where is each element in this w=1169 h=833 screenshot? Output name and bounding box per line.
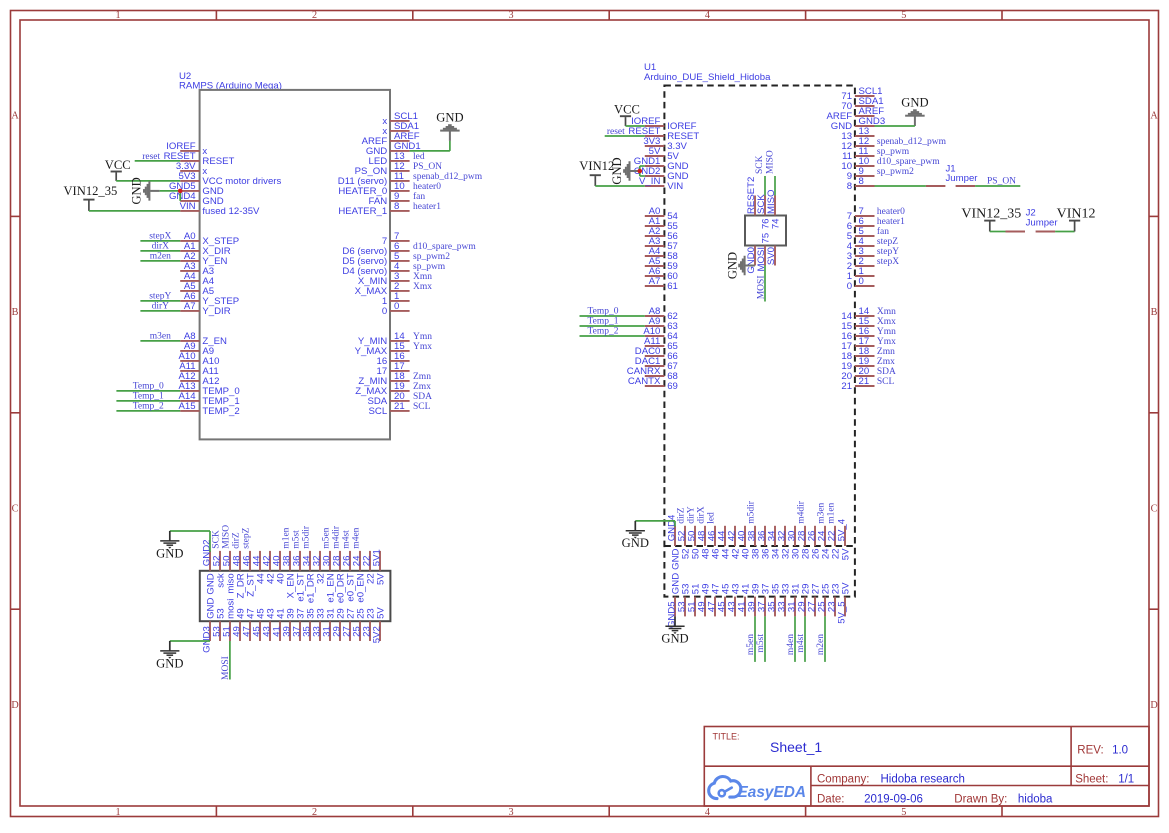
U2 pin AREF (AREF) [362, 131, 420, 147]
svg-text:Xmn: Xmn [877, 307, 896, 317]
U1 pin SDA1 (70) [841, 96, 883, 112]
U1 pin A3 (57) [645, 236, 678, 252]
svg-text:GND: GND [156, 656, 183, 670]
wire J1 to net PS_ON [975, 185, 1020, 187]
U2 pin RESET (RESET) [164, 151, 235, 167]
svg-text:74: 74 [770, 218, 781, 229]
svg-text:hidoba: hidoba [1018, 794, 1053, 806]
ground GND at SPI GND0 [726, 252, 755, 279]
header P1 column 30/31 [321, 551, 336, 641]
U2 pin SDA1 (x) [382, 121, 419, 137]
U2 pin 19 (Z_MAX) [355, 381, 409, 397]
svg-text:MOSI: MOSI [221, 656, 231, 680]
svg-text:Company:: Company: [817, 773, 869, 785]
header P2 column GND4/GND5 [666, 514, 681, 628]
frame row ticks [11, 215, 21, 217]
U1 pin CANTX (69) [628, 376, 678, 392]
U2 pin A11 (A11) [179, 361, 219, 377]
header P1 column 46/47 [241, 551, 256, 641]
svg-text:GND: GND [156, 546, 183, 560]
svg-text:dirZ: dirZ [677, 507, 687, 524]
svg-text:m5dir: m5dir [747, 500, 757, 524]
svg-text:fan: fan [413, 191, 425, 202]
U1 pin 20 (20) [841, 366, 874, 382]
svg-text:8: 8 [859, 176, 864, 187]
svg-text:dirZ: dirZ [232, 532, 242, 549]
component U1 dashed outline [664, 86, 855, 597]
svg-text:Temp_0: Temp_0 [588, 307, 619, 317]
ground GND (left of U1) [610, 157, 640, 184]
header P2 column 22/23 [826, 526, 841, 617]
svg-text:A15: A15 [179, 401, 196, 412]
svg-text:5: 5 [901, 10, 906, 21]
header P1 column 38/39 [281, 551, 296, 641]
header P2 column 46/47 [706, 526, 721, 617]
svg-text:C: C [12, 503, 19, 514]
svg-text:VCC: VCC [614, 103, 640, 117]
U1 pin GND1 (GND) [634, 156, 689, 172]
U1 pin A6 (60) [645, 266, 678, 282]
U1 pin 16 (16) [841, 326, 874, 342]
svg-text:m5en: m5en [746, 634, 756, 655]
svg-text:fan: fan [877, 226, 889, 237]
svg-text:SV0: SV0 [766, 247, 777, 265]
U2 pin 17 (17) [377, 361, 410, 377]
EasyEDA logo [709, 777, 806, 802]
svg-text:Temp_2: Temp_2 [133, 402, 164, 412]
U2 pin 5 (D5 (servo)) [342, 251, 409, 267]
svg-text:5V_4: 5V_4 [837, 518, 848, 541]
U2 pin IOREF (x) [166, 141, 207, 157]
U1 pin AREF (AREF) [827, 106, 885, 122]
svg-text:VIN12: VIN12 [1057, 206, 1096, 221]
U1 pin 11 (11) [842, 146, 874, 162]
U2 pin GND1 (GND) [366, 141, 421, 157]
wire U2 pin GND1 to GND [410, 141, 450, 151]
header P1 column 50/51 [221, 551, 236, 641]
svg-text:PS_ON: PS_ON [987, 177, 1016, 187]
header P2 column 5V_4/5V_5 [836, 518, 851, 624]
junction at U2 pin GND5 [178, 189, 183, 194]
svg-text:dirY: dirY [152, 302, 170, 312]
U2 pin 16 (16) [377, 351, 410, 367]
title block frame [704, 727, 1149, 807]
U1 pin 3V3 (3.3V) [643, 136, 687, 152]
svg-text:SCK: SCK [212, 530, 222, 549]
wire net m5en from P2 [746, 616, 756, 662]
U1 pin DAC1 (67) [635, 356, 678, 372]
svg-text:Zmn: Zmn [877, 347, 895, 357]
ground GND (bottom of P2) [661, 616, 688, 645]
wire VIN12_35 to U2 pin VIN [89, 210, 180, 212]
U1 pin 8 (8) [847, 176, 875, 192]
svg-text:stepX: stepX [877, 257, 899, 267]
svg-text:Jumper: Jumper [1026, 217, 1059, 228]
svg-text:m3en: m3en [817, 502, 827, 523]
U1 pin A4 (58) [645, 246, 678, 262]
U2 pin 14 (Y_MIN) [358, 331, 410, 347]
svg-text:Temp_0: Temp_0 [133, 382, 164, 392]
power flag VIN12_35 (at J2) [961, 206, 1021, 231]
junction at U1 GND [638, 169, 643, 174]
svg-text:m1en: m1en [827, 502, 837, 523]
svg-text:A: A [11, 111, 19, 122]
header P1 column 28/29 [331, 551, 346, 641]
svg-text:spenab_d12_pwm: spenab_d12_pwm [413, 172, 483, 182]
power flag VCC (left of U1) [614, 103, 640, 127]
wire net Temp_2 to U1 [580, 327, 645, 337]
U2 pin A9 (A9) [180, 341, 214, 357]
svg-text:TITLE:: TITLE: [713, 732, 740, 742]
svg-text:m2en: m2en [150, 252, 171, 262]
svg-text:Ymn: Ymn [877, 327, 896, 337]
U1 pin 15 (15) [841, 316, 874, 332]
U2 pin A13 (TEMP_0) [179, 381, 240, 397]
wire VIN12 to U1 pin V_IN [595, 185, 645, 187]
U1 pin 3 (3) [847, 246, 875, 262]
svg-text:heater1: heater1 [877, 217, 905, 227]
svg-text:5V1: 5V1 [372, 549, 383, 566]
U2 pin 11 (D11 (servo)) [338, 171, 410, 187]
wire net Temp_0 to U2 [116, 382, 180, 392]
U2 pin 12 (PS_ON) [355, 161, 410, 177]
U1 pin CANRX (68) [627, 366, 678, 382]
U1 pin A2 (56) [645, 226, 678, 242]
svg-text:Arduino_DUE_Shield_Hidoba: Arduino_DUE_Shield_Hidoba [644, 72, 771, 83]
svg-text:A7: A7 [184, 301, 196, 312]
header P2 column 38/39 [746, 526, 761, 617]
svg-text:PS_ON: PS_ON [413, 162, 442, 172]
svg-text:MOSI: MOSI [757, 276, 767, 300]
svg-text:1: 1 [115, 10, 120, 21]
U2 pin 8 (HEATER_1) [338, 201, 409, 217]
U1 pin IOREF (IOREF) [631, 116, 697, 132]
wire VIN12_35 to J2 pin 1 [990, 231, 1006, 233]
header P1 column 44/45 [251, 551, 266, 641]
header P1 column 36/37 [291, 551, 306, 641]
svg-text:SCK: SCK [755, 155, 765, 174]
svg-text:Zmx: Zmx [413, 382, 431, 392]
header P2 column 40/41 [736, 526, 751, 617]
component U2 body rectangle [200, 90, 390, 440]
U2 pin A12 (A12) [179, 371, 220, 387]
svg-text:VIN: VIN [667, 181, 683, 192]
U1 pin 5 (5) [847, 226, 875, 242]
svg-text:5V: 5V [840, 548, 851, 560]
header P2 column 52/53 [676, 526, 691, 617]
svg-text:m4st: m4st [796, 634, 806, 653]
power flag VIN12 (left of U1) [579, 159, 614, 186]
svg-text:Xmx: Xmx [413, 282, 432, 292]
wire reset to U1 pin RESET [605, 135, 645, 137]
svg-text:8: 8 [847, 181, 852, 192]
header P1 column GND2/GND3 [201, 540, 216, 653]
U1 pin 1 (1) [847, 266, 875, 282]
U2 pin 18 (Z_MIN) [358, 371, 409, 387]
svg-text:21: 21 [394, 401, 405, 412]
ground GND (net GND3, right of U1) [901, 96, 928, 126]
U1 pin 0 (0) [847, 276, 875, 292]
ground GND (top of P2) [622, 521, 675, 550]
U2 pin 3.3V (x) [176, 161, 208, 177]
svg-text:B: B [1151, 307, 1158, 318]
svg-text:0: 0 [847, 281, 852, 292]
U2 pin A7 (Y_DIR) [180, 301, 231, 317]
J2 pin 2 [1036, 231, 1056, 233]
svg-text:3: 3 [508, 10, 513, 21]
ground GND (right of U2, net GND1) [436, 111, 463, 141]
svg-text:sp_pwm: sp_pwm [877, 147, 910, 157]
wire net m5st from P2 [756, 616, 766, 662]
svg-text:m4en: m4en [352, 527, 362, 548]
svg-text:d10_spare_pwm: d10_spare_pwm [413, 242, 476, 252]
wire SPI SCK up [764, 176, 766, 196]
SPI pin RESET2 (top) [746, 177, 757, 216]
U2 pin A0 (X_STEP) [180, 231, 239, 247]
svg-text:RESET: RESET [202, 156, 234, 167]
svg-text:5V: 5V [840, 582, 851, 594]
U2 pin 21 (SCL) [369, 401, 410, 417]
svg-text:sp_pwm2: sp_pwm2 [413, 252, 450, 262]
U1 pin 12 (12) [841, 136, 874, 152]
svg-text:CANTX: CANTX [628, 376, 661, 387]
wire net dirX to U2 [140, 242, 180, 252]
header P2 column 42/43 [726, 526, 741, 617]
header P2 column 36/37 [756, 526, 771, 617]
svg-text:C: C [1151, 503, 1158, 514]
svg-text:75: 75 [760, 233, 771, 244]
U2 pin GND5 (GND) [169, 181, 224, 197]
wire net m4st from P2 [796, 616, 806, 662]
svg-text:8: 8 [394, 201, 399, 212]
svg-text:1/1: 1/1 [1118, 773, 1134, 785]
U1 pin 14 (14) [841, 306, 874, 322]
U1 bottom header divider (dashed) [664, 545, 855, 547]
U2 pin GND4 (GND) [169, 191, 224, 207]
svg-text:led: led [707, 512, 717, 524]
svg-text:Ymx: Ymx [413, 342, 432, 352]
svg-text:Temp_2: Temp_2 [588, 327, 619, 337]
svg-text:4: 4 [705, 10, 710, 21]
U1 pin A11 (65) [644, 336, 678, 352]
svg-text:heater1: heater1 [413, 202, 441, 212]
U1 pin DAC0 (66) [635, 346, 678, 362]
header P2 column 44/45 [716, 526, 731, 617]
svg-text:TEMP_2: TEMP_2 [202, 406, 239, 417]
wire U1 GND1/GND2 to GND [640, 166, 645, 176]
svg-text:dirX: dirX [697, 506, 707, 524]
U1 pin A5 (59) [645, 256, 678, 272]
svg-text:5: 5 [901, 807, 906, 818]
svg-text:SCL: SCL [413, 402, 431, 412]
title block company row [817, 773, 1134, 785]
svg-text:MISO: MISO [766, 150, 776, 174]
svg-text:61: 61 [667, 281, 678, 292]
wire net Temp_2 to U2 [116, 402, 180, 412]
U1 pin 13 (13) [841, 126, 874, 142]
U2 pin A2 (Y_EN) [180, 251, 227, 267]
svg-text:m3en: m3en [150, 332, 171, 342]
svg-text:2019-09-06: 2019-09-06 [864, 794, 923, 806]
wire net Temp_1 to U2 [116, 392, 180, 402]
svg-text:m4en: m4en [786, 634, 796, 655]
svg-text:5V2: 5V2 [371, 626, 382, 643]
svg-text:5V: 5V [375, 573, 386, 585]
svg-text:VIN12_35: VIN12_35 [961, 206, 1021, 221]
connector J1 labels [946, 164, 979, 184]
svg-text:VIN12_35: VIN12_35 [63, 184, 117, 198]
wire net stepY to U2 [140, 292, 180, 302]
svg-text:1: 1 [115, 807, 120, 818]
svg-text:B: B [12, 307, 19, 318]
wire GND to U2 pin GND5 [160, 190, 181, 192]
svg-text:Sheet:: Sheet: [1075, 773, 1108, 785]
svg-text:dirX: dirX [152, 242, 170, 252]
svg-text:0: 0 [859, 276, 864, 287]
SPI pin GND0 (bottom) [746, 246, 757, 274]
U2 pin 6 (D6 (servo)) [342, 241, 409, 257]
U2 pin 15 (Y_MAX) [355, 341, 410, 357]
wire VCC to U1 pin IOREF [626, 125, 645, 127]
header P1 column 48/49 [231, 551, 246, 641]
wire SPI MOSI down [764, 266, 766, 302]
power flag VCC (left of U2) [105, 158, 131, 181]
svg-text:m1en: m1en [282, 527, 292, 548]
svg-text:A7: A7 [649, 276, 661, 287]
svg-text:Drawn By:: Drawn By: [954, 794, 1007, 806]
svg-text:spenab_d12_pwm: spenab_d12_pwm [877, 137, 947, 147]
J2 pin 1 [1006, 231, 1026, 233]
SPI pin SCK (top) [756, 194, 767, 216]
header P2 column 50/51 [686, 526, 701, 617]
frame column ticks [215, 11, 217, 21]
svg-text:stepY: stepY [877, 247, 899, 257]
svg-text:m2en: m2en [816, 634, 826, 655]
J1 pin 1 [926, 185, 946, 187]
U1 pin 6 (6) [847, 216, 875, 232]
power flag VIN12 (at J2) [1057, 206, 1096, 231]
svg-text:VCC: VCC [105, 158, 131, 172]
svg-text:dirY: dirY [687, 506, 697, 524]
wire net m3en to U2 [140, 332, 180, 342]
svg-text:m5dir: m5dir [302, 525, 312, 549]
U1 pin 10 (10) [841, 156, 874, 172]
wire SPI MISO up [774, 176, 776, 196]
svg-text:D: D [11, 700, 18, 711]
U2 pin A4 (A4) [180, 271, 215, 287]
svg-text:GND: GND [130, 177, 144, 204]
svg-text:m4dir: m4dir [332, 525, 342, 549]
svg-text:Temp_1: Temp_1 [133, 392, 164, 402]
svg-text:2: 2 [312, 10, 317, 21]
U2 pin 10 (HEATER_0) [338, 181, 409, 197]
wire net dirY to U2 [140, 302, 180, 312]
svg-text:HEATER_1: HEATER_1 [338, 206, 387, 217]
wire net m2en to U2 [140, 252, 180, 262]
header P1 column 22/23 [361, 551, 376, 641]
svg-text:fused 12-35V: fused 12-35V [202, 206, 260, 217]
wire net stepX to U2 [140, 232, 180, 242]
wire U1 pin 8 to J1 [875, 185, 926, 187]
SPI header block body [745, 216, 786, 246]
U2 pin 1 (1) [382, 291, 410, 307]
header P2 column 26/27 [806, 526, 821, 617]
header P1 column 52/53 [211, 551, 226, 641]
title block TITLE row [713, 732, 1129, 757]
ground GND (left of U2) [130, 177, 160, 204]
wire VCC to U2 pin 5V3 [116, 180, 180, 182]
wire J2 pin 2 to VIN12 [1055, 231, 1075, 233]
U1 pin 21 (21) [841, 376, 874, 392]
svg-text:0: 0 [382, 306, 387, 317]
svg-text:Zmx: Zmx [877, 357, 895, 367]
svg-text:EasyEDA: EasyEDA [738, 784, 806, 801]
U2 pin 9 (FAN) [369, 191, 410, 207]
header P2 column 30/31 [786, 526, 801, 617]
wire net Temp_0 to U1 [580, 307, 645, 317]
svg-text:Date:: Date: [817, 794, 845, 806]
wire U1 pin GND3 to GND [875, 125, 915, 127]
U2 pin A6 (Y_STEP) [180, 291, 239, 307]
header P2 column 32/33 [776, 526, 791, 617]
wire net Temp_1 to U1 [580, 317, 645, 327]
svg-text:heater0: heater0 [413, 182, 441, 192]
SPI pin MISO (top) [766, 189, 777, 215]
U2 pin A3 (A3) [180, 261, 214, 277]
title block date row [817, 794, 1053, 806]
svg-text:VIN12: VIN12 [579, 159, 614, 173]
header P1 column 40/41 [271, 551, 286, 641]
U2 pin A14 (TEMP_1) [179, 391, 240, 407]
U2 pin 13 (LED) [369, 151, 410, 167]
U1 pin A10 (64) [643, 326, 678, 342]
SPI pin MOSI (bottom) [756, 246, 767, 272]
svg-text:Sheet_1: Sheet_1 [770, 739, 822, 755]
J1 pin 2 [956, 185, 976, 187]
svg-text:sp_pwm2: sp_pwm2 [877, 167, 914, 177]
svg-text:4: 4 [705, 807, 710, 818]
svg-text:stepX: stepX [149, 232, 171, 242]
svg-text:m5st: m5st [756, 634, 766, 653]
svg-text:SDA: SDA [413, 392, 432, 402]
U1 pin GND3 (GND) [831, 116, 885, 132]
svg-text:D: D [1150, 700, 1157, 711]
U2 pin 4 (D4 (servo)) [342, 261, 409, 277]
bottom-left header block body [200, 571, 391, 621]
svg-text:21: 21 [859, 376, 870, 387]
svg-text:Jumper: Jumper [946, 173, 979, 184]
U2 pin A15 (TEMP_2) [179, 401, 240, 417]
SPI pin SV0 (bottom) [766, 246, 777, 266]
svg-text:69: 69 [667, 381, 678, 392]
svg-text:m4st: m4st [342, 530, 352, 549]
U2 pin A10 (A10) [179, 351, 220, 367]
U2 pin SCL1 (x) [382, 111, 418, 127]
svg-text:5V: 5V [375, 607, 386, 619]
svg-text:stepZ: stepZ [877, 237, 898, 247]
U1 pin 4 (4) [847, 236, 875, 252]
svg-text:REV:: REV: [1077, 745, 1103, 757]
svg-text:21: 21 [841, 381, 852, 392]
svg-text:GND: GND [901, 96, 928, 110]
U1 pin 17 (17) [841, 336, 874, 352]
header P2 column 28/29 [796, 526, 811, 617]
svg-text:m5en: m5en [322, 527, 332, 548]
wire net MOSI from P1 pin 51 [229, 641, 231, 680]
svg-text:3: 3 [508, 807, 513, 818]
U2 pin 0 (0) [382, 301, 410, 317]
svg-text:SCL: SCL [369, 406, 388, 417]
